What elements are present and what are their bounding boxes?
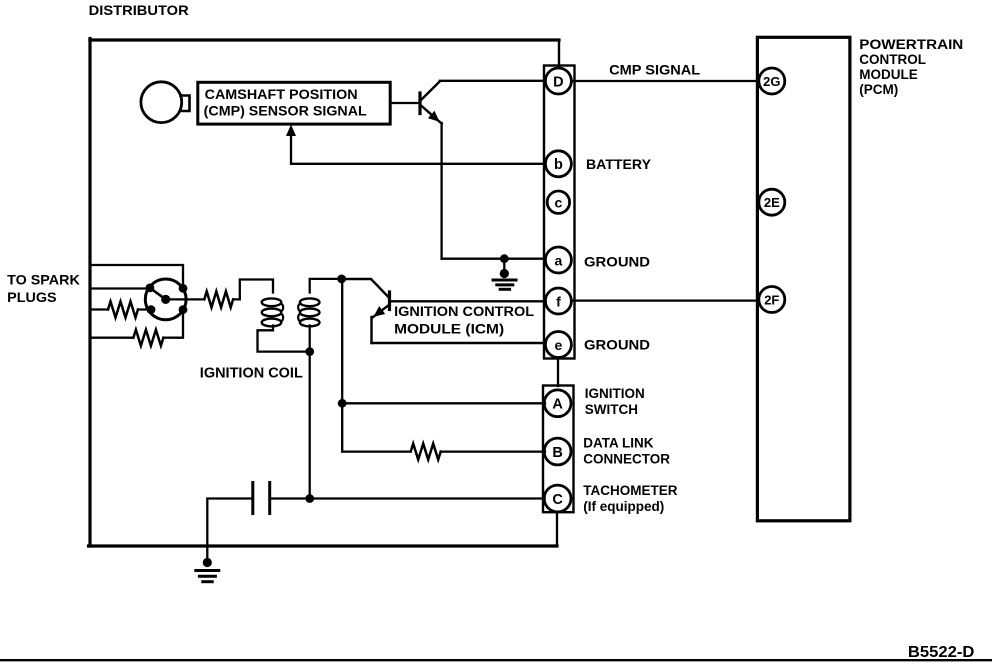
svg-text:PLUGS: PLUGS [7,289,56,305]
svg-text:A: A [552,397,563,413]
rotor contact dot bottom-right [179,305,188,314]
distributor box left edge [88,39,91,547]
junction dot A-node [338,399,347,408]
wire coil bottom down to tach node [309,352,311,499]
svg-text:(If equipped): (If equipped) [583,499,664,514]
rotor contact dot top-left [146,284,155,293]
ICM transistor base bar [388,292,391,310]
junction dot coil bottom [305,347,314,356]
rotor contact dot bottom-left [147,305,156,314]
transistor Q1 emitter [421,105,442,124]
CMP sensor pickup circle [141,82,182,123]
transistor Q1 emitter arrow [428,111,440,122]
ICM emitter arrow [374,306,386,317]
resistor (data link) [411,444,441,460]
svg-text:CAMSHAFT POSITION: CAMSHAFT POSITION [205,87,358,102]
pin e [545,332,571,358]
capacitor left wire [207,499,253,561]
pin 2E [759,189,785,215]
svg-text:2E: 2E [764,195,780,210]
svg-text:CMP SIGNAL: CMP SIGNAL [609,62,700,78]
wire e strip to A strip [557,358,559,387]
svg-text:BATTERY: BATTERY [586,156,652,172]
wire to spark plugs 1 [90,265,183,288]
svg-text:SWITCH: SWITCH [585,402,638,417]
pin a [545,247,571,273]
resistor spark 1 [108,302,138,318]
ICM transistor emitter [373,305,390,318]
svg-text:2G: 2G [763,74,780,89]
wire b to CMP box with arrow [291,130,546,164]
pin A [544,390,571,417]
pin 2F [759,287,785,313]
distributor box bottom edge [89,544,558,547]
ICM transistor base wire [342,279,389,297]
pin f [545,288,571,314]
ground symbol (capacitor) [203,558,212,567]
connector strip 2 [543,386,574,513]
svg-text:D: D [553,74,563,90]
svg-text:CONNECTOR: CONNECTOR [583,452,670,467]
ICM box top edge [390,300,546,302]
svg-text:C: C [552,492,563,508]
resistor spark 2 [133,330,163,346]
svg-text:c: c [555,194,563,210]
ICM box bottom edge [372,342,546,344]
svg-text:MODULE: MODULE [859,67,918,82]
CMP pickup tab [181,96,190,112]
wire to connector a [442,258,546,260]
bottom rule [0,659,992,661]
svg-text:(PCM): (PCM) [859,82,898,97]
svg-text:DATA LINK: DATA LINK [583,435,653,450]
pin b [545,151,571,177]
svg-text:MODULE (ICM): MODULE (ICM) [394,321,504,336]
PCM box [757,37,850,521]
pin 2G [759,68,785,94]
svg-text:(CMP) SENSOR SIGNAL: (CMP) SENSOR SIGNAL [204,103,367,118]
connector strip 1 [544,66,575,359]
rotor output wire [166,298,204,300]
distributor box top edge [90,38,559,41]
ignition coil secondary winding [262,298,282,306]
wire to spark plugs 3 with resistor [90,308,108,310]
svg-text:IGNITION COIL: IGNITION COIL [200,366,303,382]
wire box-top to connector D [558,40,560,67]
transistor Q1 base wire [390,102,419,104]
coil secondary bottom wire [258,326,308,352]
wire to resistor B [342,450,410,452]
rotor arm [150,288,166,300]
junction dot tach node [305,494,314,503]
pin c [547,191,569,213]
rotor circle [145,279,186,320]
ignition coil primary winding [300,298,320,306]
wire to spark plugs 2 [90,287,150,289]
resistor rotor-to-coil [204,291,233,307]
junction dot ground tap [500,254,509,263]
rotor contact dot top-right [179,284,188,293]
arrow up into CMP box [286,125,296,137]
wire f to 2F [571,299,758,301]
junction dot coil/ICM node [337,275,346,284]
wire Q1 emitter down [440,123,442,259]
svg-text:b: b [554,157,563,173]
pin D [545,68,571,94]
CMP sensor box [198,82,390,124]
svg-text:DISTRIBUTOR: DISTRIBUTOR [89,2,189,18]
svg-text:a: a [555,252,563,268]
wire to spark plugs 4 with resistor [90,337,133,339]
transistor Q1 base bar [418,93,421,114]
coil primary top wire [310,279,342,293]
pin C [544,485,571,512]
svg-text:TACHOMETER: TACHOMETER [583,483,677,498]
wire CMP SIGNAL D to 2G [571,80,758,82]
svg-text:IGNITION: IGNITION [585,386,645,401]
svg-text:B: B [552,445,562,461]
transistor Q1 collector [421,82,440,101]
svg-text:e: e [555,337,563,353]
wire resistor to coil secondary top [233,280,273,300]
wire tach node to C [310,497,545,499]
wire resistor to rotor contact [138,308,152,310]
rotor center dot [161,295,170,304]
svg-text:POWERTRAIN: POWERTRAIN [859,37,963,52]
svg-text:2F: 2F [764,292,779,307]
svg-text:GROUND: GROUND [584,337,650,353]
wire node to A [342,402,545,404]
wire resistor to B [441,450,545,452]
coil primary bottom wire [309,326,311,352]
pin B [544,438,571,465]
wire coil node down to B level [341,279,343,452]
svg-text:B5522-D: B5522-D [908,644,975,661]
svg-text:IGNITION CONTROL: IGNITION CONTROL [394,304,534,319]
ICM box left edge [370,317,372,343]
svg-text:f: f [556,293,561,309]
ground symbol (sensor ground) [503,259,505,271]
wire resistor right and up to rotor contact [163,310,183,338]
svg-text:GROUND: GROUND [584,254,650,270]
svg-text:CONTROL: CONTROL [859,52,926,67]
wire below C to box bottom [556,512,558,546]
wire Q1 collector to D [440,80,546,82]
svg-text:TO SPARK: TO SPARK [7,272,80,288]
capacitor plates [251,483,254,514]
capacitor right wire [270,497,310,499]
